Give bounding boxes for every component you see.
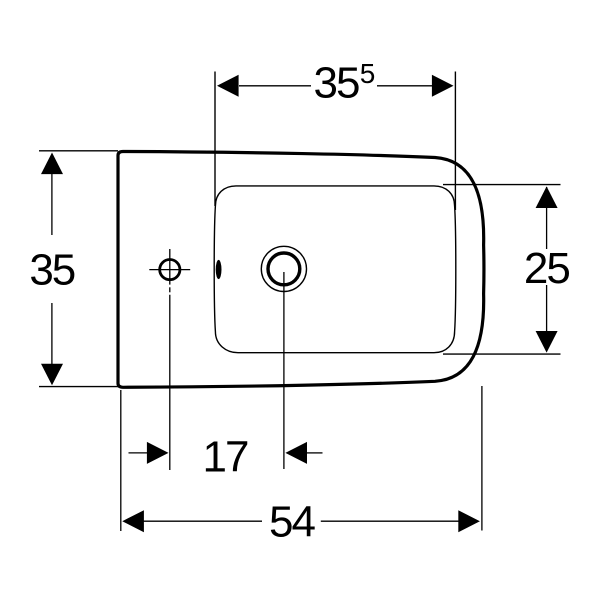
dim 54 arrow right	[458, 510, 480, 532]
dim 35.5 arrow right	[432, 75, 454, 97]
dim 35 shaft lower	[51, 303, 53, 365]
drain outer circle	[261, 246, 306, 291]
dim 25 shaft lower	[546, 285, 548, 351]
svg-text:5: 5	[360, 58, 376, 89]
dim 25 arrow down	[536, 331, 558, 353]
dim 35.5 shaft right	[377, 85, 432, 87]
drain extension line down	[283, 272, 285, 469]
svg-text:54: 54	[269, 498, 315, 547]
svg-text:25: 25	[524, 244, 569, 293]
dim 25 arrow up	[536, 186, 558, 208]
dim 25 shaft upper	[546, 187, 548, 249]
dim 54 shaft left	[144, 520, 263, 522]
dim 35 arrow down	[41, 364, 63, 386]
tap extension line down	[169, 295, 171, 470]
dim 17 left arrow	[147, 442, 169, 464]
dim 25 bottom extension line	[443, 353, 561, 355]
dim 35.5 right extension line	[454, 72, 456, 211]
dim 35 top extension line	[39, 150, 118, 152]
svg-text:17: 17	[203, 433, 248, 482]
dim 35 arrow up	[41, 153, 63, 175]
svg-text:35: 35	[29, 245, 74, 294]
bidet outer body outline	[118, 152, 484, 388]
dim 35 bottom extension line	[39, 386, 120, 388]
tap hole circle	[160, 260, 180, 280]
svg-text:35: 35	[314, 59, 359, 108]
dim 17 right arrow	[285, 442, 307, 464]
dim 54 right extension line	[481, 386, 483, 531]
tap hole crosshair vertical	[169, 249, 171, 285]
tap hole crosshair horizontal	[149, 269, 190, 271]
inner basin outline	[214, 186, 456, 353]
dim 35.5 left extension line	[214, 72, 216, 207]
dim 54 left extension line	[120, 390, 122, 531]
dim 54 arrow left	[122, 510, 144, 532]
dim 17 left shaft	[129, 452, 150, 454]
drain inner circle	[268, 253, 300, 285]
overflow hole oval	[216, 260, 222, 279]
tap centreline dash	[169, 287, 171, 292]
dim 54 shaft right	[321, 520, 459, 522]
dim 35 shaft upper	[51, 173, 53, 236]
dim 17 right shaft	[307, 452, 323, 454]
dim 35.5 shaft left	[239, 85, 311, 87]
dim 35.5 arrow left	[217, 75, 239, 97]
dim 25 top extension line	[443, 184, 561, 186]
